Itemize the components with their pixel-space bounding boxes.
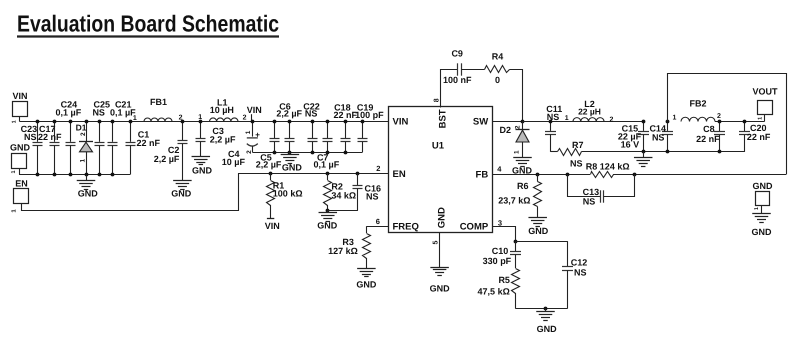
svg-text:NS: NS (92, 108, 105, 118)
diode D1 (76, 122, 93, 175)
wire FB2 to VOUT (715, 121, 765, 123)
junction C20 (743, 120, 747, 124)
junction dots second bank ground rail (273, 151, 348, 155)
svg-text:6: 6 (376, 217, 380, 226)
svg-text:C12: C12 (571, 257, 588, 267)
junction COMP (514, 240, 518, 244)
ground under C15 (634, 152, 653, 167)
svg-text:SW: SW (473, 117, 488, 128)
svg-text:100 kΩ: 100 kΩ (273, 188, 303, 198)
wire output ground line (582, 151, 745, 153)
pin label SW U1 (473, 117, 488, 128)
svg-text:D1: D1 (76, 123, 87, 133)
svg-text:1: 1 (133, 115, 137, 122)
inductor L2 (573, 99, 604, 122)
svg-text:10 µH: 10 µH (210, 105, 234, 115)
junction COMP ground (544, 307, 548, 311)
svg-text:NS: NS (547, 112, 560, 122)
capacitor C18 (334, 103, 358, 152)
svg-text:100 nF: 100 nF (443, 75, 472, 85)
resistor R7 snubber (550, 140, 583, 169)
capacitor C19 (355, 103, 384, 152)
pin label EN U1 (393, 169, 406, 180)
junction dots FB rail (536, 173, 637, 177)
svg-text:FREQ: FREQ (393, 222, 419, 233)
capacitor C22 (303, 101, 320, 152)
resistor R1 (267, 174, 303, 219)
svg-text:FB: FB (476, 169, 489, 180)
svg-text:2: 2 (80, 132, 87, 136)
junction C3 / L1 pin 1 (199, 120, 203, 124)
title (17, 11, 279, 37)
svg-text:VOUT: VOUT (752, 87, 778, 97)
pin 1 label J1 (11, 120, 17, 123)
svg-text:1: 1 (758, 117, 764, 120)
svg-text:22 µH: 22 µH (578, 107, 601, 117)
svg-text:22 nF: 22 nF (38, 132, 62, 142)
svg-text:D2: D2 (500, 125, 512, 135)
junction dots C15 (642, 120, 646, 154)
pin number 8 BST (433, 98, 440, 102)
capacitor C20 (739, 122, 771, 152)
svg-text:1: 1 (565, 115, 569, 122)
ground under D1 (77, 175, 99, 199)
junction dots C8 (718, 120, 722, 154)
capacitor C16 (328, 174, 381, 211)
wire COMP pin (493, 227, 516, 242)
junction dots C14 (666, 120, 670, 154)
wire SW pin (492, 121, 523, 123)
svg-text:C8: C8 (703, 124, 715, 134)
svg-text:2: 2 (246, 150, 253, 154)
svg-text:C10: C10 (492, 246, 509, 256)
svg-text:C9: C9 (451, 49, 463, 59)
wire COMP to C12 (515, 241, 567, 243)
svg-text:330 pF: 330 pF (483, 256, 512, 266)
svg-text:2,2 µF: 2,2 µF (256, 160, 282, 170)
svg-text:GND: GND (752, 227, 773, 237)
wire FB sense loop (668, 74, 787, 175)
pin 1 label FB1 (133, 115, 137, 122)
pin 1 label D1 (80, 159, 87, 163)
wire EN rail (238, 173, 388, 175)
junction dots EN rail (269, 172, 360, 176)
pin 1 label J3 (10, 209, 17, 213)
wire SW rail to L2 (523, 121, 644, 123)
ferrite bead FB2 (681, 99, 715, 122)
pin 2 label D2 (515, 125, 522, 129)
ground under U1 (430, 268, 451, 294)
pin 2 label L1 (243, 114, 247, 121)
svg-text:VIN: VIN (393, 117, 409, 128)
ground under R2 (317, 211, 338, 231)
ground under C3 (192, 157, 213, 176)
svg-text:2,2 µF: 2,2 µF (276, 108, 302, 118)
svg-text:NS: NS (574, 267, 587, 277)
svg-text:22 nF: 22 nF (137, 138, 161, 148)
capacitor C4 polarized (222, 122, 260, 168)
capacitor C23 (21, 122, 43, 175)
svg-text:COMP: COMP (460, 222, 489, 233)
svg-text:NS: NS (24, 132, 37, 142)
svg-text:100 pF: 100 pF (355, 110, 384, 120)
resistor R8 (586, 161, 630, 177)
svg-text:0,1 µF: 0,1 µF (56, 108, 82, 118)
ground under R6 (528, 218, 549, 236)
svg-text:Evaluation Board Schematic: Evaluation Board Schematic (17, 11, 279, 37)
capacitor C21 (108, 100, 137, 175)
svg-text:1: 1 (245, 130, 252, 134)
svg-text:22 nF: 22 nF (747, 132, 771, 142)
svg-text:4: 4 (497, 165, 502, 174)
svg-text:1: 1 (11, 170, 17, 173)
pin label BST U1 (437, 109, 448, 128)
inductor L1 (210, 97, 239, 121)
svg-text:FB2: FB2 (689, 99, 706, 109)
ground under R3 (356, 269, 377, 290)
svg-text:23,7 kΩ: 23,7 kΩ (498, 196, 530, 206)
svg-text:GND: GND (528, 226, 549, 236)
ground under J5 (752, 214, 773, 238)
pin 2 label C4 (246, 150, 253, 154)
junction C11 (549, 120, 553, 124)
svg-text:GND: GND (78, 189, 99, 199)
capacitor C7 (314, 122, 340, 170)
svg-text:GND: GND (356, 280, 377, 290)
svg-text:0,1 µF: 0,1 µF (314, 160, 340, 170)
capacitor C10 (483, 241, 521, 266)
pin 2 label D1 (80, 132, 87, 136)
svg-text:GND: GND (192, 165, 213, 175)
wire COMP ground rail (515, 308, 567, 310)
svg-text:2: 2 (717, 113, 721, 120)
connector J5 GND (753, 181, 774, 214)
node SW junction (521, 120, 525, 124)
pin label COMP U1 (460, 222, 489, 233)
ground under COMP network (536, 309, 557, 334)
node VIN under R1 (265, 219, 280, 232)
svg-text:GND: GND (753, 181, 774, 191)
svg-text:127 kΩ: 127 kΩ (328, 246, 358, 256)
pin 1 label J4 (758, 117, 764, 120)
resistor R6 (498, 174, 541, 218)
wire VIN rail (20, 121, 389, 123)
svg-text:5: 5 (432, 240, 439, 244)
junction C2 (181, 120, 185, 124)
svg-text:1: 1 (198, 114, 202, 121)
wire FREQ pin (366, 226, 388, 228)
svg-text:1: 1 (514, 150, 521, 154)
svg-text:R6: R6 (517, 181, 529, 191)
svg-text:22 nF: 22 nF (696, 134, 720, 144)
svg-text:GND: GND (171, 188, 192, 198)
wire EN connector to rail (22, 174, 239, 211)
capacitor C13 (568, 175, 635, 207)
svg-text:GND: GND (317, 220, 338, 230)
svg-text:2: 2 (243, 114, 247, 121)
pin label VIN U1 (393, 117, 409, 128)
svg-text:NS: NS (583, 196, 596, 206)
pin number 2 EN (376, 164, 380, 173)
svg-text:2,2 µF: 2,2 µF (154, 154, 180, 164)
pin label FREQ U1 (393, 222, 419, 233)
wire FB rail right (613, 174, 786, 176)
svg-text:0: 0 (495, 75, 500, 85)
capacitor C9 (443, 49, 472, 86)
resistor R5 (478, 255, 520, 309)
svg-text:NS: NS (570, 159, 583, 169)
svg-text:GND: GND (10, 143, 31, 153)
pin 1 label J5 (754, 207, 760, 210)
capacitor C14 (649, 122, 673, 152)
svg-text:8: 8 (433, 98, 440, 102)
ground under second bank (281, 152, 303, 172)
capacitor C3 (196, 122, 236, 157)
svg-text:GND: GND (430, 283, 451, 293)
svg-text:GND: GND (437, 207, 448, 228)
wire GND pin U1 (439, 233, 441, 267)
svg-text:GND: GND (282, 162, 303, 172)
resistor R3 (328, 226, 370, 268)
resistor R4 (485, 52, 510, 86)
svg-text:2: 2 (515, 125, 522, 129)
svg-text:GND: GND (537, 324, 558, 334)
capacitor C11 (545, 104, 562, 152)
pin number 6 FREQ (376, 217, 380, 226)
connector J2 GND (10, 143, 31, 175)
svg-text:U1: U1 (432, 141, 445, 152)
wire input ground rail (19, 174, 130, 176)
svg-text:+: + (255, 131, 260, 140)
pin 1 label L1 (198, 114, 202, 121)
ferrite bead FB1 (144, 97, 172, 121)
wire R4 to SW node (510, 70, 523, 122)
svg-text:1: 1 (80, 159, 87, 163)
pin label GND U1 (437, 207, 448, 228)
svg-text:EN: EN (393, 169, 406, 180)
svg-text:47,5 kΩ: 47,5 kΩ (478, 287, 510, 297)
wire BST to bootstrap (441, 70, 458, 108)
connector J1 VIN (12, 91, 27, 122)
junction dots VIN rail second bank (251, 120, 365, 124)
svg-text:2,2 µF: 2,2 µF (210, 135, 236, 145)
capacitor C5 (256, 122, 282, 170)
svg-text:16 V: 16 V (621, 140, 640, 150)
ground under C2 (171, 181, 192, 199)
svg-text:VIN: VIN (265, 221, 280, 231)
svg-text:2: 2 (609, 116, 613, 123)
IC U1 (389, 107, 493, 233)
capacitor C24 (56, 100, 82, 175)
wire FB pin rail (492, 174, 590, 176)
junction dots VIN rail input bank (36, 120, 133, 124)
pin 1 label L2 (565, 115, 569, 122)
svg-text:NS: NS (652, 133, 665, 143)
svg-text:BST: BST (437, 109, 448, 128)
svg-text:10 µF: 10 µF (222, 157, 246, 167)
capacitor C6 (276, 101, 302, 152)
wire C9 to R4 (461, 69, 484, 71)
pin number 4 FB (497, 165, 502, 174)
capacitor C25 (92, 100, 110, 175)
connector J4 VOUT (752, 87, 778, 122)
ground under D2 (512, 158, 533, 176)
svg-text:VIN: VIN (12, 91, 27, 101)
pin 2 label FB1 (179, 114, 183, 121)
pin 1 label J2 (11, 170, 17, 173)
svg-text:EN: EN (15, 178, 28, 188)
connector J3 EN (14, 178, 29, 203)
pin label FB U1 (476, 169, 489, 180)
svg-text:2: 2 (376, 164, 380, 173)
junction dots input ground rail (36, 173, 115, 177)
svg-text:R8 124 kΩ: R8 124 kΩ (586, 161, 630, 171)
svg-text:22 nF: 22 nF (334, 110, 358, 120)
capacitor C8 (696, 122, 725, 152)
svg-text:34 kΩ: 34 kΩ (331, 190, 356, 200)
capacitor C12 (562, 241, 587, 308)
pin 2 label L2 (609, 116, 613, 123)
svg-text:FB1: FB1 (150, 97, 167, 107)
svg-text:1: 1 (10, 209, 17, 213)
svg-text:NS: NS (366, 192, 379, 202)
pin 1 label D2 (514, 150, 521, 154)
pin number 3 COMP (498, 218, 502, 227)
svg-text:R5: R5 (498, 275, 510, 285)
pin 1 label C4 (245, 130, 252, 134)
svg-text:1: 1 (673, 115, 677, 122)
pin 2 label FB2 (717, 113, 721, 120)
junction R2 bottom (326, 209, 330, 213)
capacitor C1 (126, 122, 161, 175)
capacitor C15 (618, 122, 649, 152)
wire second bank ground rail (252, 152, 362, 154)
capacitor C2 (154, 122, 188, 181)
capacitor C17 (38, 122, 62, 175)
svg-text:1: 1 (11, 120, 17, 123)
svg-text:R7: R7 (572, 140, 584, 150)
pin number 5 GND (432, 240, 439, 244)
svg-text:NS: NS (305, 108, 318, 118)
svg-text:R4: R4 (492, 52, 504, 62)
diode D2 (500, 122, 530, 158)
svg-text:1: 1 (754, 207, 760, 210)
pin 1 label FB2 (673, 115, 677, 122)
svg-text:VIN: VIN (247, 105, 262, 115)
node VIN net label (247, 105, 262, 122)
resistor R2 (324, 174, 357, 211)
